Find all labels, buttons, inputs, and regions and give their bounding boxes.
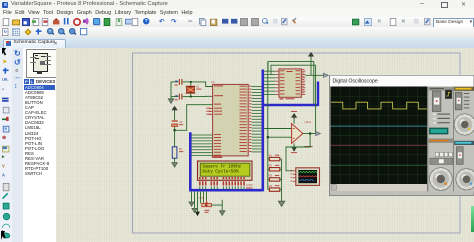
junction crystal bottom	[190, 96, 192, 98]
wire crystal left rail	[170, 82, 172, 97]
svg-text:U1: U1	[211, 80, 215, 84]
mcu label AT89C52	[212, 157, 223, 158]
title bar	[0, 0, 474, 10]
trace channel D	[331, 164, 428, 166]
lcd pins	[199, 186, 201, 189]
wire dac wrap inner	[271, 65, 316, 133]
lcd pin name texture	[199, 177, 201, 179]
svg-text:R4: R4	[269, 184, 273, 188]
svg-text:Digital Oscilloscope: Digital Oscilloscope	[333, 78, 378, 84]
channel A toggle	[455, 92, 462, 110]
wire lcd rw	[203, 192, 205, 204]
channel B knob	[456, 168, 474, 189]
wire lcd vdd	[194, 192, 196, 207]
dac U2 label	[280, 98, 284, 99]
svg-text:Duty Cycle=50%: Duty Cycle=50%	[202, 169, 239, 175]
ground pot right	[221, 209, 223, 211]
resistor R2	[268, 168, 270, 170]
wire lcd rs	[200, 192, 202, 204]
channel B header	[454, 140, 474, 144]
svg-text:R2: R2	[269, 164, 273, 168]
resistor R4	[268, 189, 270, 191]
mouse cursor bottom-left	[1, 231, 5, 240]
oscilloscope screen bottom strip	[331, 184, 428, 191]
canvas grid background	[56, 48, 474, 242]
crystal X1	[187, 87, 195, 93]
wire lcd vss	[191, 192, 193, 200]
play button sliver at right edge	[471, 206, 474, 232]
preview box	[26, 49, 57, 78]
capacitor C3	[172, 120, 178, 122]
bus horizontal to dac area	[263, 104, 318, 106]
svg-text:RV1: RV1	[200, 197, 205, 200]
svg-text:X1: X1	[196, 84, 200, 88]
oscilloscope control panel	[428, 86, 474, 191]
junction op-amp output	[309, 132, 311, 134]
wire dac out to terminal	[305, 74, 323, 76]
trigger edge display	[445, 90, 452, 99]
oscilloscope screen	[331, 86, 428, 184]
trace channel A square wave	[331, 102, 427, 109]
resistor R3	[268, 178, 270, 180]
svg-text:R3: R3	[269, 174, 273, 178]
wire lcd vee	[197, 192, 199, 212]
orientation toolbar strip	[12, 48, 24, 242]
wire crystal vertical	[190, 82, 192, 97]
svg-text:R1: R1	[179, 147, 183, 151]
wire RST net	[175, 105, 213, 131]
horizontal small buttons	[435, 152, 439, 156]
potentiometer RV1	[202, 204, 212, 207]
object selector panel	[23, 48, 57, 242]
oscilloscope instrument symbol	[296, 168, 320, 186]
trigger option text	[438, 113, 451, 114]
channel B toggle	[457, 146, 464, 164]
wire op-amp output	[303, 133, 316, 135]
oscilloscope window title bar	[330, 75, 474, 86]
capacitor C2	[178, 94, 180, 100]
bus vertical right of dac	[317, 82, 319, 107]
junction crystal top	[190, 81, 192, 83]
power terminal below lcd	[196, 212, 200, 215]
dac U2 body	[279, 69, 301, 97]
op-amp power down	[293, 143, 295, 147]
trace channel C	[331, 144, 428, 146]
wire output to scope	[286, 134, 310, 171]
power terminal dac	[309, 53, 314, 57]
trace channel B	[331, 125, 428, 127]
ground lcd second	[194, 206, 196, 208]
svg-text:C3: C3	[179, 120, 183, 124]
wire dac wrap outer	[268, 62, 314, 104]
mcu U1 right pin name texture	[240, 85, 247, 88]
lcd screen	[200, 163, 250, 176]
wire pot to right ground	[211, 205, 222, 209]
wires mcu P1 pins to bus	[191, 134, 212, 136]
mcu U1 AT89C52 body	[213, 84, 249, 155]
svg-text:Square Fr 100Hz: Square Fr 100Hz	[202, 163, 241, 169]
oscilloscope pins	[293, 170, 296, 172]
trigger readout	[430, 128, 449, 134]
ground crystal	[170, 97, 172, 99]
wire op-amp inverting input	[264, 128, 291, 130]
svg-text:U3:A: U3:A	[305, 120, 312, 124]
capacitor C1	[178, 79, 180, 85]
wire lcd e	[206, 192, 208, 201]
ground lcd left	[191, 200, 193, 202]
dac U2 pin texture	[264, 70, 275, 72]
power +5V terminal reset	[172, 106, 177, 110]
device list	[24, 85, 55, 177]
toolbar row 2	[0, 27, 474, 38]
oscilloscope window frame	[329, 75, 474, 196]
wire pot up arrow	[221, 200, 223, 205]
window controls	[420, 0, 424, 7]
wire C3 to RST junction	[174, 127, 176, 131]
bus vertical right of mcu	[261, 70, 264, 192]
terminal arrow dac out	[324, 73, 329, 77]
ground reset resistor	[174, 158, 176, 160]
op-amp power up	[293, 118, 295, 123]
toolbar row 1	[0, 17, 474, 28]
trigger toggle switch	[432, 91, 441, 112]
op-amp U3:A	[292, 124, 303, 144]
sheet border	[133, 53, 461, 233]
terminal arrow op-amp out	[316, 131, 321, 135]
left mode toolbar	[0, 48, 13, 242]
menu bar	[0, 9, 474, 17]
bus vertical left of lcd	[189, 132, 192, 191]
resistor R1	[268, 158, 270, 160]
channel A tick labels	[464, 93, 470, 94]
oscilloscope popup window	[329, 75, 474, 196]
wire XTAL1 net	[191, 82, 213, 87]
junction RST	[174, 129, 176, 131]
wire analog rail to resistors	[267, 62, 269, 190]
horizontal slider	[430, 158, 453, 164]
wire junction to resistor	[174, 130, 176, 147]
mcu U1 left pin name texture	[214, 85, 223, 86]
wire op-amp non-inverting input	[268, 136, 292, 138]
svg-text:R1: R1	[269, 153, 273, 157]
svg-text:LCD1: LCD1	[246, 183, 253, 187]
P L DEVICES header	[24, 79, 29, 84]
lcd pin number texture	[199, 181, 201, 185]
schematic canvas	[56, 48, 474, 242]
combobox Base Design	[433, 18, 474, 28]
tab bar	[0, 37, 474, 49]
resistor R5 reset	[172, 147, 177, 158]
wires mcu right pins to bus	[252, 86, 262, 88]
lcd LM016L body	[198, 161, 253, 180]
bus horizontal below lcd	[189, 189, 262, 192]
horizontal section header	[428, 138, 453, 142]
ground resistors	[281, 199, 283, 201]
wire XTAL2 net	[191, 95, 213, 97]
horizontal knob	[429, 167, 452, 190]
wire resistor common	[281, 159, 283, 199]
trigger section header	[428, 86, 453, 90]
channel A header	[454, 86, 474, 90]
channel A knob	[454, 113, 474, 134]
